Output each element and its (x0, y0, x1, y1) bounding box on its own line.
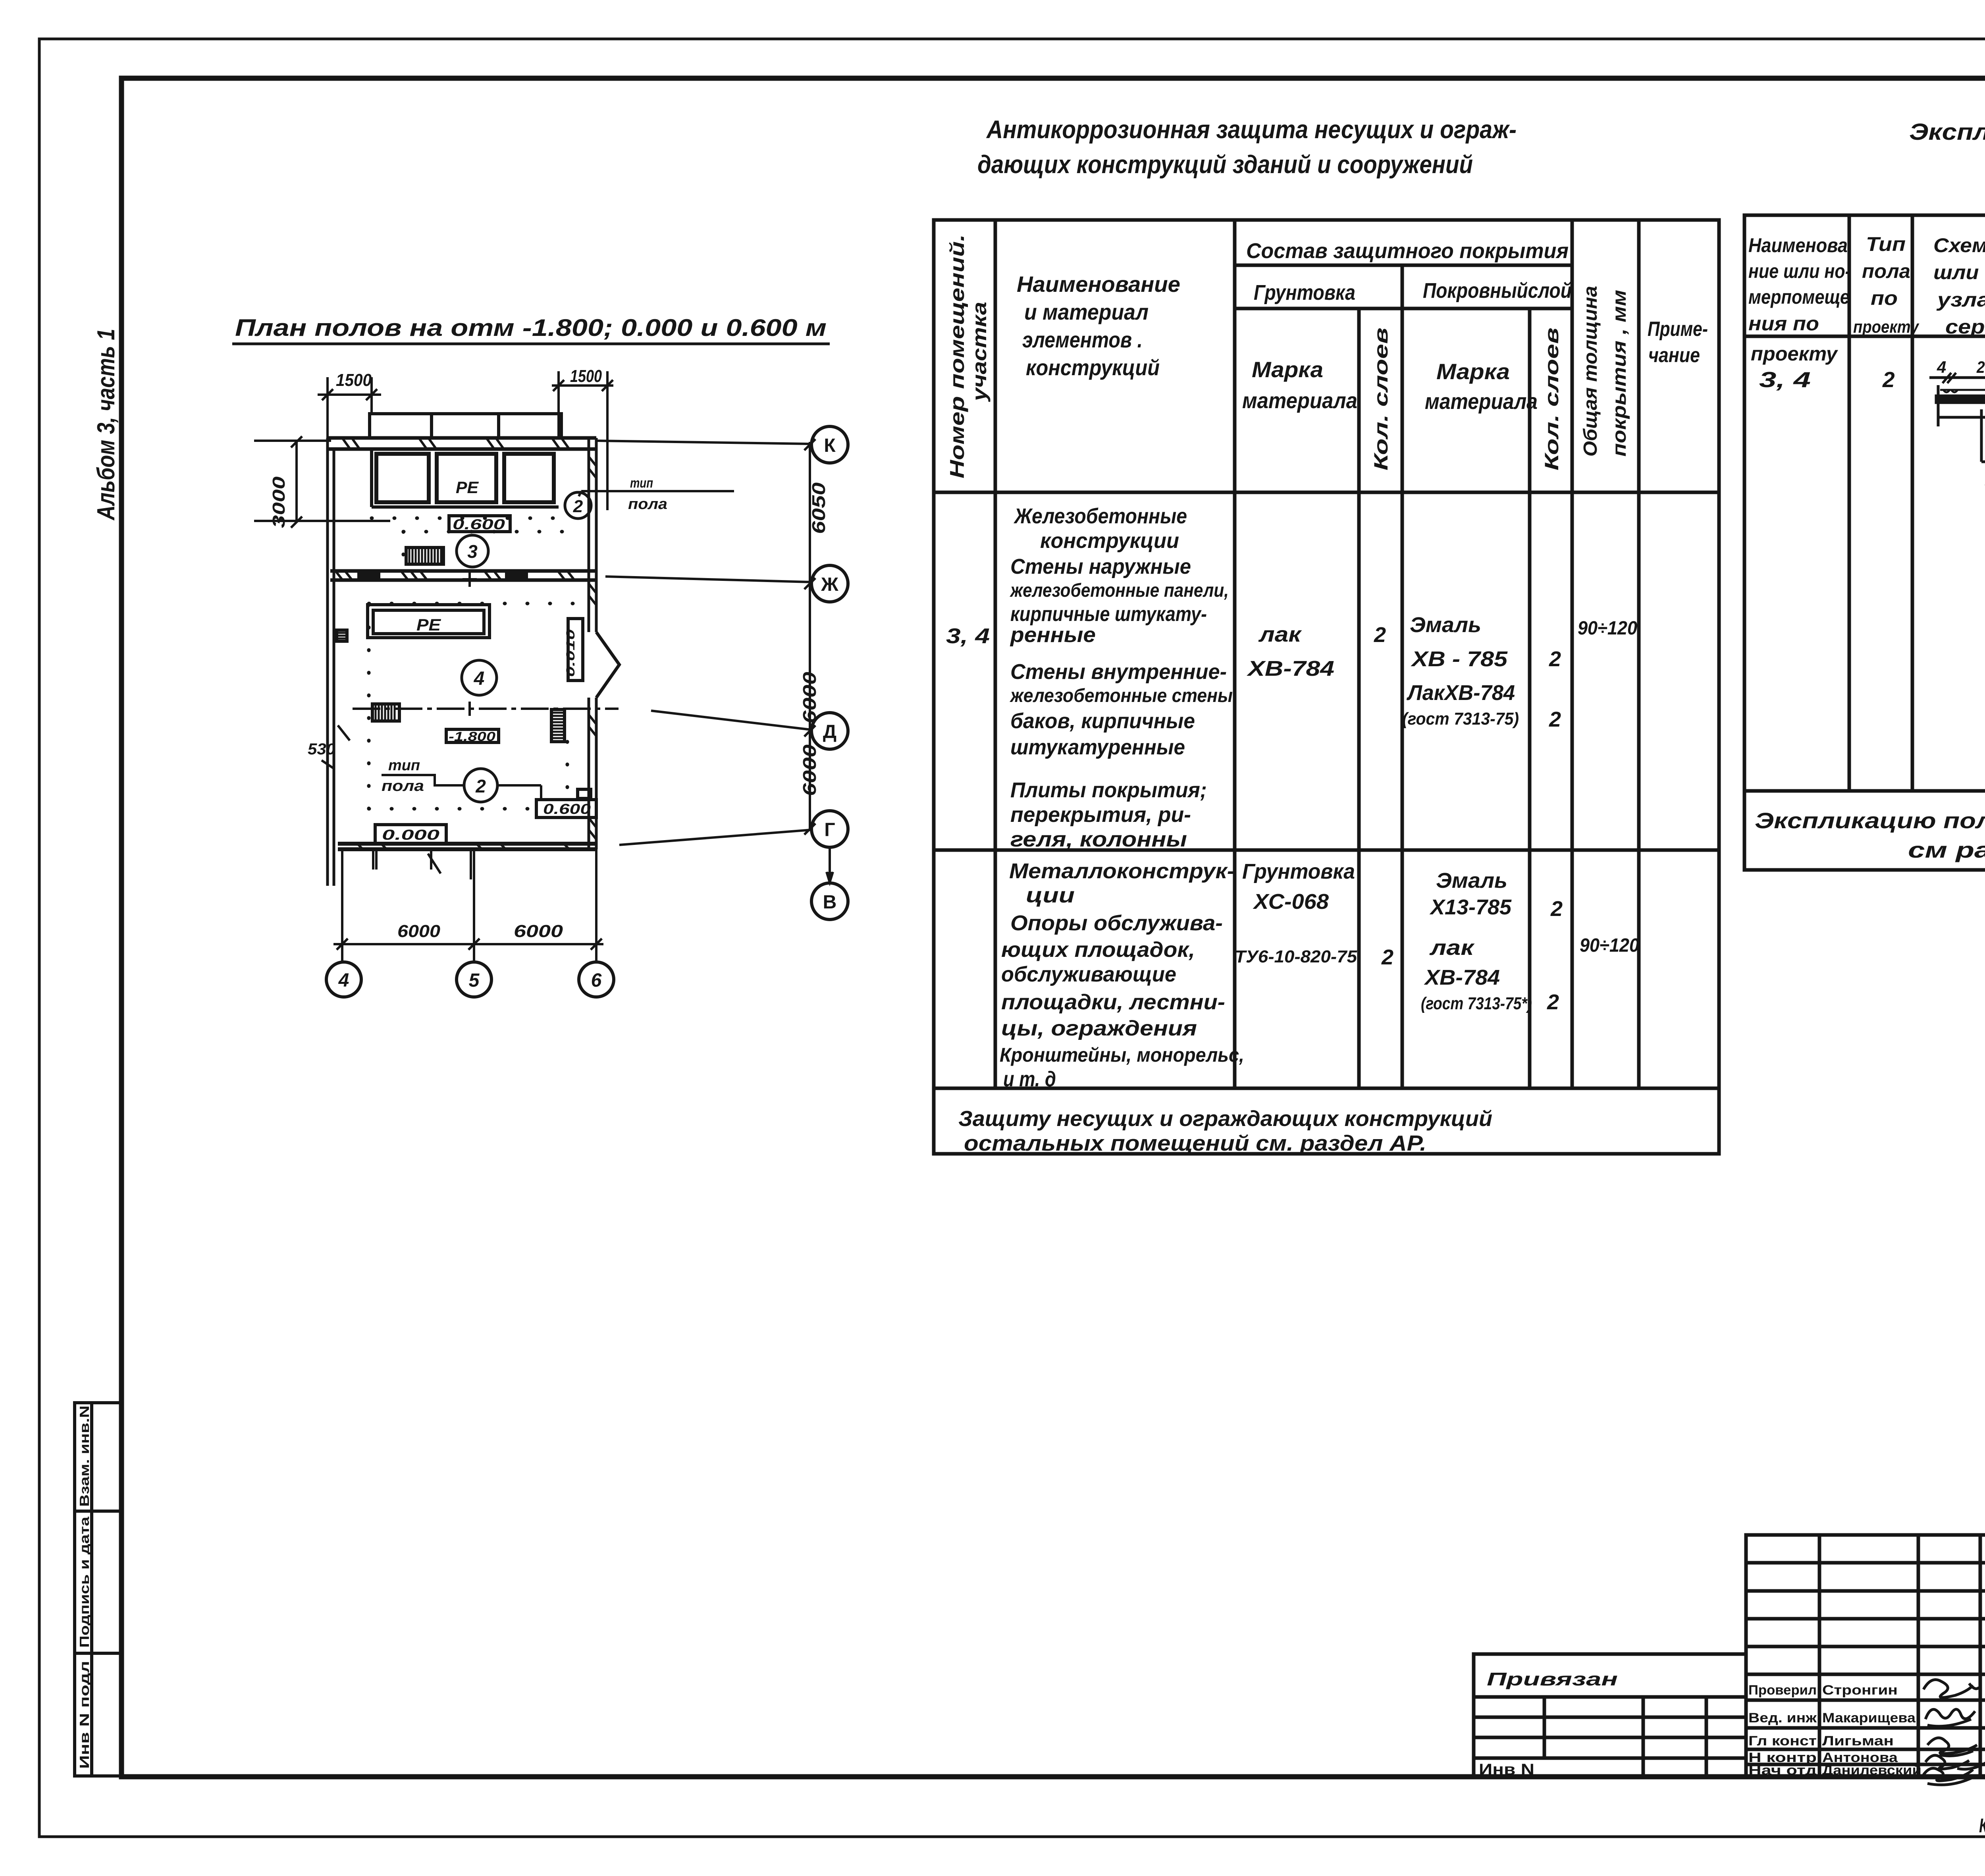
svg-text:участка: участка (968, 302, 991, 403)
svg-text:Опоры обслужива-: Опоры обслужива- (1010, 911, 1223, 935)
svg-text:4: 4 (1937, 358, 1946, 376)
svg-text:материала: материала (1425, 389, 1538, 414)
svg-text:ние шли но-: ние шли но- (1748, 260, 1851, 282)
svg-text:Взам. инв.N: Взам. инв.N (77, 1406, 92, 1507)
svg-text:ния по: ния по (1748, 312, 1819, 335)
svg-text:Инв N подл: Инв N подл (77, 1661, 92, 1769)
svg-text:перекрытия, ри-: перекрытия, ри- (1010, 803, 1191, 827)
svg-text:лак: лак (1258, 623, 1302, 646)
svg-text:Грунтовка: Грунтовка (1254, 281, 1355, 305)
svg-text:серии: серии (1945, 316, 1985, 338)
svg-text:Схема пола: Схема пола (1933, 234, 1985, 256)
svg-text:6000: 6000 (514, 922, 563, 941)
svg-text:4: 4 (338, 970, 349, 991)
svg-text:(гост 7313-75): (гост 7313-75) (1402, 709, 1519, 729)
svg-text:Эмаль: Эмаль (1410, 613, 1481, 637)
svg-text:площадки, лестни-: площадки, лестни- (1001, 990, 1225, 1014)
svg-text:Эмаль: Эмаль (1436, 869, 1507, 893)
svg-text:6000: 6000 (799, 671, 820, 723)
svg-text:Номер помещений.: Номер помещений. (946, 234, 968, 478)
svg-text:Марка: Марка (1436, 359, 1510, 384)
svg-text:ХС-068: ХС-068 (1253, 890, 1329, 914)
svg-text:ции: ции (1026, 883, 1075, 907)
svg-text:дающих конструкций зданий и с: дающих конструкций зданий и сооружений (977, 150, 1473, 179)
svg-text:90÷120: 90÷120 (1580, 935, 1639, 956)
svg-text:РЕ: РЕ (416, 615, 441, 634)
svg-text:тип: тип (630, 476, 653, 491)
svg-text:Копировал Подлевская: Копировал Подлевская (1979, 1814, 1985, 1837)
svg-text:2: 2 (1550, 897, 1563, 921)
svg-text:см раздел „ АР“: см раздел „ АР“ (1908, 837, 1985, 862)
svg-text:остальных помещений см.: остальных помещений см. раздел АР. (964, 1131, 1426, 1155)
svg-text:конструкций: конструкций (1026, 355, 1160, 380)
svg-text:чание: чание (1648, 344, 1700, 367)
svg-text:мерпомеще: мерпомеще (1748, 286, 1850, 308)
svg-text:лак: лак (1429, 936, 1475, 960)
svg-text:0.600: 0.600 (543, 801, 591, 817)
svg-text:Гл конст: Гл конст (1748, 1733, 1817, 1749)
svg-text:железобетонные панели,: железобетонные панели, (1009, 580, 1229, 601)
svg-text:3: 3 (467, 541, 478, 562)
svg-text:Стены наружные: Стены наружные (1010, 555, 1191, 578)
svg-text:230: 230 (1976, 358, 1985, 376)
svg-text:6050: 6050 (808, 482, 829, 534)
svg-text:ющих площадок,: ющих площадок, (1001, 938, 1195, 962)
svg-text:2: 2 (1549, 647, 1561, 671)
svg-text:Состав защитного покрытия: Состав защитного покрытия (1246, 239, 1569, 263)
svg-text:2: 2 (1549, 708, 1561, 731)
svg-text:-1.800: -1.800 (449, 729, 495, 744)
svg-text:Лигьман: Лигьман (1822, 1733, 1894, 1749)
svg-text:обслуживающие: обслуживающие (1001, 962, 1176, 986)
svg-text:3, 4: 3, 4 (946, 624, 990, 648)
svg-text:Общая толщина: Общая толщина (1580, 286, 1601, 457)
svg-text:Экспликацию полов остальны: Экспликацию полов остальных помещений (1755, 808, 1985, 833)
svg-text:узла по: узла по (1936, 289, 1985, 311)
svg-text:проекту: проекту (1853, 317, 1919, 337)
svg-text:Металлоконструк-: Металлоконструк- (1009, 859, 1235, 883)
svg-text:Плиты покрытия;: Плиты покрытия; (1010, 778, 1207, 802)
svg-text:Марка: Марка (1252, 357, 1323, 382)
svg-text:2: 2 (475, 776, 486, 796)
svg-text:конструкции: конструкции (1040, 529, 1179, 553)
svg-text:Д: Д (823, 721, 836, 742)
svg-text:5: 5 (469, 970, 480, 991)
svg-text:0.000: 0.000 (382, 827, 439, 843)
svg-text:элементов .: элементов . (1022, 327, 1143, 352)
svg-text:3000: 3000 (269, 476, 289, 528)
svg-text:6000: 6000 (397, 922, 441, 941)
svg-text:пола: пола (382, 778, 424, 794)
svg-text:0.010: 0.010 (564, 629, 577, 677)
svg-text:Кронштейны, монорельс,: Кронштейны, монорельс, (1000, 1044, 1244, 1066)
svg-text:Привязан: Привязан (1487, 1669, 1618, 1689)
svg-text:ТУ6-10-820-75: ТУ6-10-820-75 (1235, 947, 1357, 966)
svg-text:Проверил: Проверил (1748, 1683, 1817, 1698)
svg-text:0.600: 0.600 (453, 516, 505, 532)
svg-text:План полов на отм -1.800; 0.0: План полов на отм -1.800; 0.000 и 0.600 … (235, 314, 827, 341)
svg-text:штукатуренные: штукатуренные (1010, 735, 1185, 759)
svg-text:кирпичные штукату-: кирпичные штукату- (1010, 603, 1207, 626)
svg-text:Антикоррозионная защита несущи: Антикоррозионная защита несущих и ограж- (986, 115, 1517, 144)
svg-text:6: 6 (591, 970, 602, 991)
svg-text:4: 4 (474, 668, 485, 689)
svg-text:шли номер: шли номер (1933, 261, 1985, 283)
svg-text:ренные: ренные (1010, 623, 1096, 647)
svg-text:Х13-785: Х13-785 (1429, 895, 1512, 919)
svg-text:баков, кирпичные: баков, кирпичные (1010, 709, 1195, 733)
svg-text:1500: 1500 (336, 370, 372, 390)
svg-text:и т. д: и т. д (1003, 1067, 1056, 1091)
svg-text:ХВ-784: ХВ-784 (1246, 657, 1334, 681)
svg-text:РЕ: РЕ (456, 478, 479, 497)
svg-text:Покровныйслой: Покровныйслой (1423, 279, 1572, 303)
svg-text:ЛакХВ-784: ЛакХВ-784 (1406, 681, 1515, 705)
svg-text:Наименова: Наименова (1748, 234, 1848, 256)
svg-text:Тип: Тип (1866, 233, 1906, 255)
svg-text:6000: 6000 (799, 744, 820, 796)
svg-text:геля, колонны: геля, колонны (1010, 827, 1187, 851)
svg-text:К: К (824, 435, 836, 456)
svg-text:Данилевский: Данилевский (1822, 1763, 1921, 1778)
svg-text:3, 4: 3, 4 (1759, 367, 1811, 392)
svg-text:Макарищева: Макарищева (1822, 1710, 1916, 1726)
svg-text:Инв N: Инв N (1479, 1761, 1534, 1778)
svg-text:2: 2 (573, 497, 583, 516)
svg-text:2: 2 (1547, 990, 1559, 1014)
svg-text:2: 2 (1374, 623, 1386, 647)
svg-text:Ж: Ж (821, 574, 838, 595)
svg-text:Стронгин: Стронгин (1822, 1683, 1898, 1698)
svg-text:530: 530 (308, 740, 335, 758)
svg-text:Кол. слоев: Кол. слоев (1371, 328, 1392, 470)
svg-text:1500: 1500 (570, 366, 602, 386)
svg-text:Стены внутренние-: Стены внутренние- (1010, 660, 1227, 684)
svg-text:Экспликация полов: Экспликация полов (1909, 119, 1985, 145)
svg-text:Г: Г (824, 819, 835, 841)
svg-text:2: 2 (1381, 945, 1393, 969)
svg-text:Грунтовка: Грунтовка (1242, 860, 1355, 883)
svg-text:и материал: и материал (1024, 299, 1149, 324)
svg-text:Нач отд: Нач отд (1748, 1763, 1817, 1778)
svg-text:Приме-: Приме- (1648, 318, 1708, 341)
svg-text:(гост 7313-75*): (гост 7313-75*) (1421, 994, 1532, 1013)
svg-text:Наименование: Наименование (1017, 272, 1180, 297)
svg-text:материала: материала (1242, 388, 1357, 413)
svg-text:пола: пола (1862, 260, 1910, 282)
svg-text:Кол. слоев: Кол. слоев (1542, 328, 1563, 470)
svg-text:Железобетонные: Железобетонные (1013, 504, 1187, 528)
svg-text:Защиту несущих и ограждающи: Защиту несущих и ограждающих конструкций (958, 1106, 1492, 1131)
svg-text:90÷120: 90÷120 (1578, 618, 1637, 639)
svg-text:2: 2 (1882, 367, 1895, 392)
svg-text:ХВ - 785: ХВ - 785 (1411, 647, 1508, 671)
svg-text:ХВ-784: ХВ-784 (1424, 966, 1500, 989)
svg-text:покрытия , мм: покрытия , мм (1609, 290, 1630, 457)
svg-text:В: В (823, 892, 837, 913)
svg-text:по: по (1871, 287, 1898, 309)
svg-text:железобетонные стены: железобетонные стены (1009, 685, 1233, 706)
svg-text:пола: пола (628, 496, 667, 513)
svg-text:Вед. инж: Вед. инж (1748, 1710, 1817, 1726)
svg-text:тип: тип (388, 757, 420, 774)
svg-text:проекту: проекту (1751, 343, 1838, 365)
svg-text:Альбом 3, часть 1: Альбом 3, часть 1 (93, 329, 120, 521)
svg-text:цы, ограждения: цы, ограждения (1001, 1016, 1197, 1040)
svg-text:Подпись и дата: Подпись и дата (77, 1516, 92, 1648)
